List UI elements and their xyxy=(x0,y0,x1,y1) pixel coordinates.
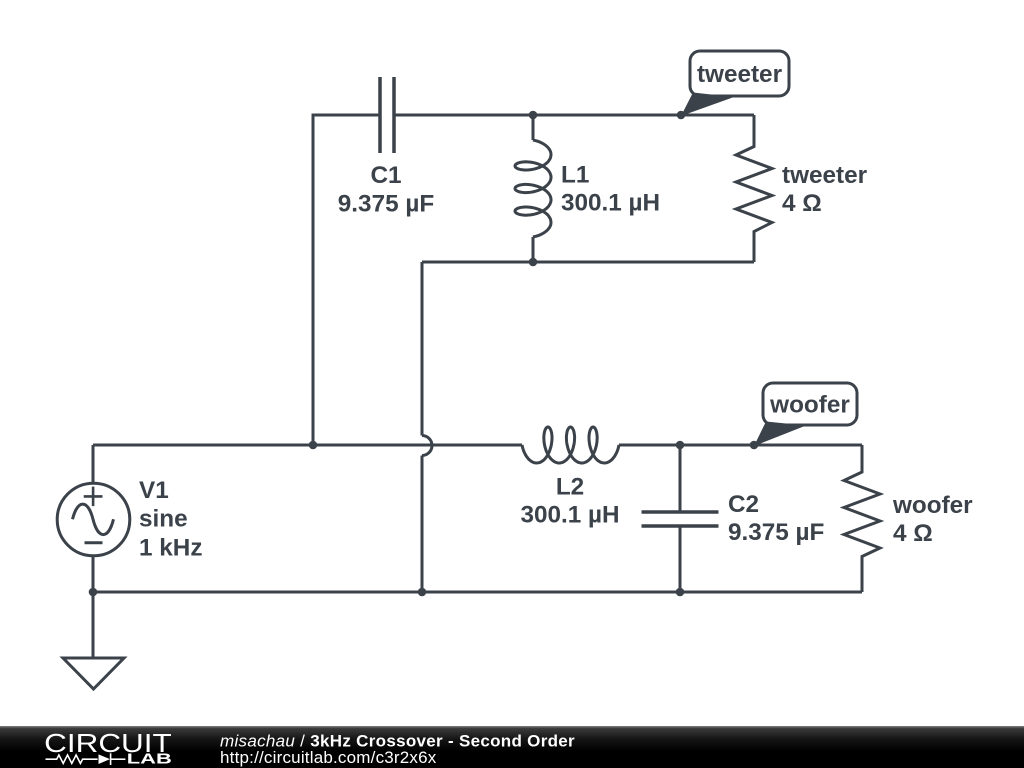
node dot woofer xyxy=(750,441,759,450)
callout tail woofer xyxy=(754,422,806,447)
resistor woofer xyxy=(844,445,880,592)
capacitor C2 xyxy=(679,445,682,512)
svg-text:sine: sine xyxy=(139,506,188,533)
svg-text:woofer: woofer xyxy=(892,492,973,519)
V1 minus xyxy=(85,541,103,544)
V1 plus xyxy=(84,487,103,507)
resistor tweeter xyxy=(736,115,772,262)
junction dot xyxy=(529,258,538,267)
junction dot xyxy=(676,588,685,597)
junction dot xyxy=(529,111,538,120)
svg-text:LAB: LAB xyxy=(127,751,172,767)
capacitor C1 xyxy=(380,77,394,153)
svg-text:1 kHz: 1 kHz xyxy=(139,534,202,561)
svg-text:woofer: woofer xyxy=(769,392,850,419)
svg-text:V1: V1 xyxy=(139,477,169,504)
svg-text:300.1 µH: 300.1 µH xyxy=(520,502,619,529)
svg-text:tweeter: tweeter xyxy=(782,162,868,189)
svg-text:http://circuitlab.com/c3r2x6x: http://circuitlab.com/c3r2x6x xyxy=(220,748,437,767)
svg-text:C1: C1 xyxy=(370,162,401,189)
wire top right segment xyxy=(394,114,754,117)
svg-text:4 Ω: 4 Ω xyxy=(782,190,822,217)
wire top left segment xyxy=(313,115,380,445)
voltage source V1 xyxy=(92,445,95,483)
wire bottom xyxy=(93,591,862,594)
svg-text:300.1 µH: 300.1 µH xyxy=(561,190,660,217)
junction dot xyxy=(309,441,318,450)
junction dot xyxy=(418,588,427,597)
inductor L2 xyxy=(522,427,619,463)
V1 sine xyxy=(73,504,114,535)
svg-text:C2: C2 xyxy=(728,491,759,518)
wire vertical x=422 lower xyxy=(421,456,424,593)
svg-text:9.375 µF: 9.375 µF xyxy=(338,190,434,217)
inductor L1 xyxy=(532,115,535,140)
callout box woofer xyxy=(763,383,857,425)
svg-text:9.375 µF: 9.375 µF xyxy=(728,519,824,546)
wire hop xyxy=(422,436,432,456)
svg-text:4 Ω: 4 Ω xyxy=(893,520,933,547)
ground xyxy=(63,658,124,689)
node dot tweeter xyxy=(677,111,686,120)
wire mid left xyxy=(93,444,522,447)
junction dot xyxy=(89,588,98,597)
svg-text:tweeter: tweeter xyxy=(697,61,783,88)
junction dot xyxy=(676,441,685,450)
callout box tweeter xyxy=(690,51,789,96)
wire vertical x=422 upper xyxy=(421,262,424,436)
svg-text:L2: L2 xyxy=(556,474,584,501)
callout tail tweeter xyxy=(681,93,734,117)
wire mid right xyxy=(619,444,862,447)
svg-text:L1: L1 xyxy=(561,162,589,189)
logo mini circuit xyxy=(46,753,126,765)
wire tweeter bottom xyxy=(422,261,754,264)
